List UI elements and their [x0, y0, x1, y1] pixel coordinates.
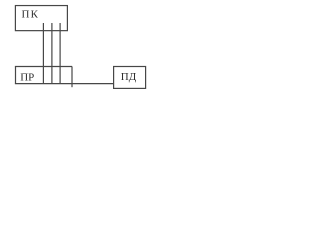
wire 3 (ПК to ПР)	[59, 23, 61, 84]
block ПК box	[15, 6, 67, 31]
block ПР right edge	[71, 67, 73, 88]
wire 1 (ПК to ПР)	[42, 23, 44, 84]
svg-text:ПР: ПР	[20, 71, 34, 83]
svg-text:ПК: ПК	[22, 9, 40, 21]
block ПР top edge	[15, 66, 72, 68]
block ПР left edge	[15, 67, 17, 84]
block ПД box	[114, 67, 146, 89]
block ПР bottom edge + wire (ПР to ПД)	[15, 83, 114, 85]
svg-text:ПД: ПД	[121, 71, 137, 83]
wire 2 (ПК to ПР)	[51, 23, 53, 84]
